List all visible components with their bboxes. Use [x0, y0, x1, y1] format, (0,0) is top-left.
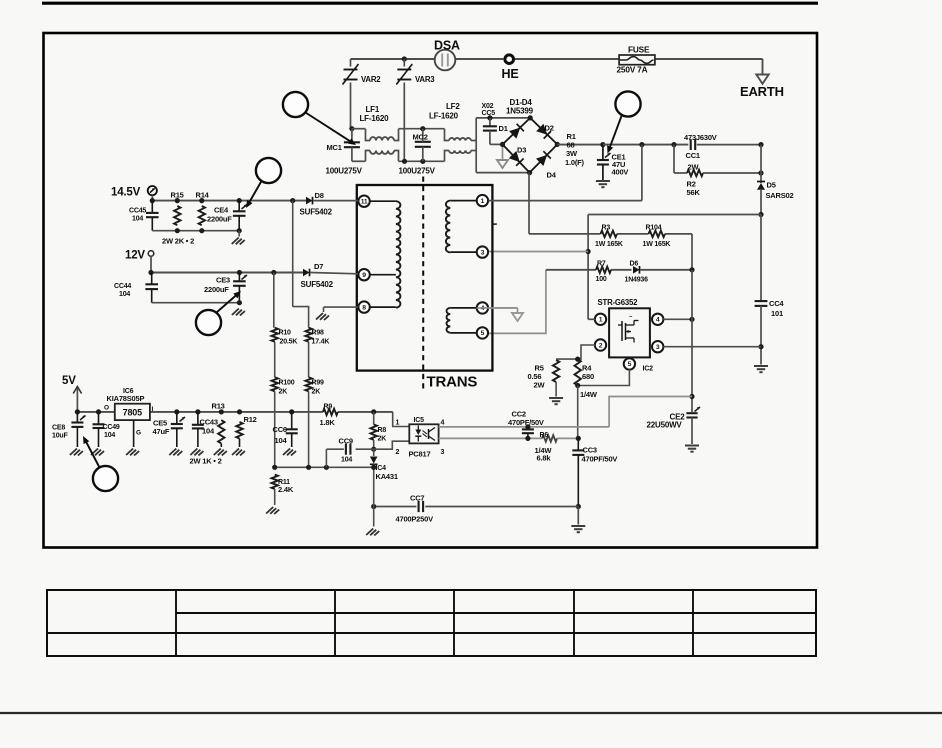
- capacitor CE4 2200uF: [233, 210, 246, 212]
- svg-text:101: 101: [771, 309, 783, 318]
- callout circle 2 to CE4: [256, 158, 281, 183]
- stub tap: [492, 223, 496, 225]
- bridge diamond D1-D4: [503, 118, 531, 144]
- shunt reference IC4 KA431: [373, 449, 375, 456]
- lamp DSA: [435, 50, 456, 71]
- svg-text:X02: X02: [482, 103, 494, 110]
- svg-text:IC2: IC2: [643, 366, 654, 373]
- svg-text:R15: R15: [171, 191, 184, 200]
- wire 5V bus: [77, 411, 114, 413]
- diode D8 SUF5402: [306, 197, 313, 205]
- svg-text:R7: R7: [597, 261, 606, 268]
- svg-text:1W 165K: 1W 165K: [643, 241, 671, 248]
- callout circle 3 to CE3: [196, 310, 221, 335]
- wire IC2 pin3 to CC4 rail: [663, 346, 761, 348]
- page bottom rule: [0, 712, 942, 714]
- capacitor CC2 470PF/50V: [525, 424, 530, 429]
- resistor R2 56K 2W: [673, 145, 675, 173]
- pin 4 transformer: [477, 302, 488, 313]
- svg-text:3W: 3W: [566, 149, 578, 158]
- svg-text:CC6: CC6: [273, 425, 287, 434]
- svg-text:1.0(F): 1.0(F): [565, 158, 585, 167]
- svg-text:104: 104: [119, 291, 130, 298]
- svg-text:100: 100: [596, 276, 607, 283]
- wire AC top line: [351, 58, 436, 60]
- callout circle 1 to MC1: [283, 92, 308, 117]
- resistor R14 2W 2K: [199, 206, 205, 225]
- diode D3: [509, 151, 520, 162]
- node VAR3 bottom: [402, 159, 407, 164]
- capacitor CC4 101: [755, 300, 768, 302]
- svg-text:FUSE: FUSE: [628, 45, 650, 55]
- svg-text:2W 1K • 2: 2W 1K • 2: [190, 457, 222, 466]
- svg-text:R100: R100: [279, 379, 295, 386]
- svg-text:10uF: 10uF: [52, 433, 68, 440]
- wire pin5 return: [488, 270, 546, 334]
- svg-text:CC49: CC49: [103, 424, 120, 431]
- resistor R6 6.8k: [542, 435, 557, 441]
- node MC1 top: [349, 126, 354, 131]
- secondary winding bottom: [450, 307, 476, 309]
- svg-text:O: O: [104, 405, 109, 412]
- secondary winding top: [450, 200, 476, 202]
- wire IC2 pin1 feed: [587, 215, 589, 320]
- svg-text:D3: D3: [517, 146, 526, 155]
- svg-text:VAR2: VAR2: [361, 75, 381, 84]
- capacitor CC1 473J630V: [690, 139, 692, 150]
- node pin3 wire junction: [586, 249, 591, 254]
- wire earth drop: [762, 59, 764, 74]
- svg-text:1N4936: 1N4936: [625, 277, 649, 284]
- capacitor CC44 104: [151, 273, 153, 284]
- svg-text:G: G: [136, 430, 141, 437]
- resistor R10 20.5K: [272, 328, 278, 342]
- regulator IC6 KIA78S05P 7805: [115, 404, 150, 420]
- svg-text:DSA: DSA: [434, 39, 460, 53]
- svg-text:–: –: [629, 314, 633, 320]
- svg-text:14.5V: 14.5V: [111, 187, 141, 199]
- svg-text:100U275V: 100U275V: [326, 167, 363, 176]
- wire R104 drop: [691, 234, 693, 270]
- svg-text:D1: D1: [499, 124, 508, 133]
- wire pin4 rail down: [691, 270, 693, 412]
- wire LF1 rails: [352, 128, 366, 130]
- wire CE1 to CC1: [603, 144, 688, 146]
- diode D5 SARS02: [760, 173, 762, 183]
- svg-text:PC817: PC817: [409, 450, 431, 459]
- terminal HE: [505, 55, 514, 64]
- svg-text:47uF: 47uF: [153, 427, 170, 436]
- svg-text:CC43: CC43: [200, 418, 218, 427]
- node R7 D6 junction: [689, 267, 694, 272]
- capacitor CE3 2200uF: [233, 280, 246, 282]
- resistor R13 1K: [218, 420, 224, 443]
- svg-text:2: 2: [396, 449, 400, 456]
- resistor R7 100: [546, 269, 596, 271]
- svg-text:104: 104: [341, 457, 352, 464]
- svg-text:D8: D8: [315, 191, 324, 200]
- svg-text:470PF/50V: 470PF/50V: [508, 418, 544, 427]
- pin 5 IC2: [624, 358, 635, 369]
- capacitor MC1: [344, 141, 360, 143]
- wire IC2 pin4 to rail: [663, 318, 692, 320]
- svg-text:2W 2K • 2: 2W 2K • 2: [162, 237, 194, 246]
- svg-text:CC3: CC3: [583, 446, 597, 455]
- pin 1 transformer: [477, 195, 488, 206]
- svg-text:3: 3: [481, 249, 485, 256]
- pin 4 IC2: [652, 314, 663, 325]
- svg-text:2K: 2K: [378, 436, 387, 443]
- wire IC5 pin4 line: [439, 426, 609, 428]
- svg-text:R9: R9: [324, 403, 333, 410]
- svg-text:CC45: CC45: [129, 208, 146, 215]
- svg-text:D2: D2: [545, 124, 554, 133]
- earth symbol: [756, 75, 768, 84]
- choke LF2: [445, 129, 450, 141]
- svg-text:250V 7A: 250V 7A: [617, 65, 648, 75]
- wire feedback top rail: [588, 214, 761, 216]
- wire LF2 output bracket: [475, 118, 477, 173]
- svg-text:STR-G6352: STR-G6352: [598, 298, 639, 307]
- svg-text:KIA78S05P: KIA78S05P: [107, 394, 145, 403]
- svg-text:22U50WV: 22U50WV: [647, 420, 683, 429]
- svg-text:CC9: CC9: [339, 437, 353, 446]
- svg-text:12V: 12V: [125, 250, 145, 262]
- svg-text:2200uF: 2200uF: [207, 215, 232, 224]
- table row line lower: [47, 632, 816, 634]
- LED inside IC5: [415, 430, 421, 436]
- svg-text:7805: 7805: [123, 407, 142, 417]
- wire pin4 to ground: [476, 307, 517, 309]
- wire R99 down crossing bus: [308, 391, 310, 467]
- svg-text:1: 1: [481, 198, 485, 205]
- wire IC2 pin2 to R4: [578, 345, 596, 359]
- svg-text:2: 2: [599, 342, 603, 349]
- svg-text:R99: R99: [312, 379, 325, 386]
- wire right rail top: [758, 142, 763, 147]
- wire IC2 pin5 down: [578, 369, 630, 385]
- capacitor MC2: [420, 126, 425, 131]
- svg-text:R13: R13: [212, 402, 225, 411]
- wire R10 to R100: [274, 342, 276, 378]
- pin 9 transformer: [358, 269, 369, 280]
- svg-text:SARS02: SARS02: [766, 191, 794, 200]
- choke LF1: [370, 137, 394, 140]
- svg-text:2K: 2K: [312, 388, 321, 395]
- svg-text:4700P250V: 4700P250V: [396, 515, 434, 524]
- svg-text:R10: R10: [279, 330, 292, 337]
- svg-text:CC4: CC4: [769, 299, 784, 308]
- svg-text:HE: HE: [502, 67, 519, 81]
- diode D4: [536, 155, 547, 166]
- svg-text:CC7: CC7: [410, 494, 424, 503]
- svg-text:1: 1: [599, 317, 603, 324]
- svg-text:2K: 2K: [279, 388, 288, 395]
- resistor R9 1.8K: [323, 409, 338, 415]
- svg-text:IC5: IC5: [414, 417, 425, 424]
- resistor R3 1W 165K: [529, 233, 601, 235]
- resistor R11 2.4K: [272, 475, 278, 489]
- pin 1 IC2: [595, 314, 606, 325]
- svg-text:1.8K: 1.8K: [320, 418, 336, 427]
- wire 14.5V bottom rail: [152, 230, 239, 232]
- pin 3 transformer: [477, 246, 488, 257]
- table row line upper: [176, 612, 816, 614]
- wire AC to bridge bottom: [476, 172, 529, 174]
- svg-text:4: 4: [441, 420, 445, 427]
- svg-text:104: 104: [104, 432, 115, 439]
- svg-text:R104: R104: [646, 225, 662, 232]
- svg-text:LF-1620: LF-1620: [429, 112, 459, 121]
- capacitor CC45 104: [151, 201, 153, 213]
- callout circle 5 to CE1: [615, 91, 640, 116]
- svg-text:6.8k: 6.8k: [537, 454, 552, 463]
- wire AC to bridge top: [476, 117, 530, 119]
- svg-text:CC5: CC5: [482, 110, 496, 117]
- wire feedback node: [275, 466, 374, 468]
- svg-text:20.5K: 20.5K: [280, 339, 298, 346]
- wire DC+ rail / resistor R1 68: [557, 144, 603, 146]
- capacitor CE1 47U 400V: [600, 142, 605, 147]
- svg-text:400V: 400V: [612, 168, 629, 177]
- svg-text:473J630V: 473J630V: [684, 133, 717, 142]
- wire drop to trans pin1 line: [641, 145, 643, 201]
- resistor R98 17.4K: [305, 328, 311, 342]
- svg-text:4: 4: [656, 317, 660, 324]
- wire CC44 bottom: [152, 302, 240, 304]
- resistor R99 2K: [305, 377, 311, 391]
- fuse FUSE 250V 7A: [619, 55, 655, 65]
- svg-text:R3: R3: [602, 225, 611, 232]
- wire IC4 ground: [373, 507, 375, 527]
- svg-text:D5: D5: [767, 181, 776, 190]
- capacitor CC43 104: [197, 412, 199, 424]
- svg-text:R98: R98: [312, 330, 325, 337]
- wire IC5 pin3 line: [439, 437, 542, 439]
- wire R8 to IC5 pin2: [374, 441, 410, 449]
- svg-text:11: 11: [361, 199, 368, 206]
- optocoupler IC5 PC817 box: [409, 424, 438, 443]
- wire R100 down crossing bus: [274, 391, 276, 467]
- resistor R8 2K: [371, 424, 377, 440]
- svg-text:56K: 56K: [687, 188, 701, 197]
- wire 14.5V branch down: [292, 201, 294, 307]
- transformer TRANS box: [357, 185, 493, 371]
- wire R4 down to CC3 node: [577, 386, 579, 439]
- svg-text:CE4: CE4: [214, 206, 229, 215]
- resistor R100 2K: [272, 377, 278, 391]
- node D5 bottom: [758, 212, 763, 217]
- capacitor CC6 104: [291, 412, 293, 429]
- resistor R15 2W 2K: [174, 206, 180, 225]
- svg-text:5V: 5V: [62, 375, 76, 387]
- varistor VAR2: [350, 59, 352, 67]
- ground bridge AC left: [502, 144, 504, 159]
- wire CC3 ground: [576, 504, 581, 509]
- capacitor CC5 X02: [487, 115, 492, 120]
- wire mid rails: [399, 128, 445, 130]
- svg-text:9: 9: [362, 272, 366, 279]
- svg-text:3: 3: [656, 344, 660, 351]
- page top rule: [42, 2, 818, 5]
- svg-text:TRANS: TRANS: [427, 374, 478, 391]
- pin 8 transformer: [358, 301, 369, 312]
- capacitor CC49 104: [98, 412, 100, 424]
- diode D6 1N4936: [633, 266, 640, 274]
- wire R98 to R99: [308, 342, 310, 378]
- svg-text:LF-1620: LF-1620: [360, 114, 390, 123]
- wire trans pin3 to node: [488, 251, 588, 253]
- table column lines: [175, 590, 177, 656]
- svg-text:3: 3: [441, 449, 445, 456]
- table outer border: [47, 590, 816, 656]
- svg-text:LF2: LF2: [446, 102, 460, 111]
- svg-text:MC2: MC2: [413, 133, 428, 142]
- mosfet inside IC2: [621, 321, 623, 341]
- svg-text:R4: R4: [582, 363, 592, 372]
- svg-text:104: 104: [132, 216, 143, 223]
- capacitor CE5 47uF: [176, 412, 178, 424]
- svg-text:SUF5402: SUF5402: [300, 208, 333, 217]
- phototransistor inside IC5: [428, 429, 430, 439]
- wire pin8 to ground: [324, 306, 359, 308]
- resistor R5 0.56 2W: [556, 358, 578, 360]
- svg-text:100U275V: 100U275V: [399, 167, 436, 176]
- svg-text:IC4: IC4: [376, 465, 387, 472]
- primary winding: [370, 200, 396, 202]
- resistor R104 1W 165K: [617, 233, 649, 235]
- svg-text:VAR3: VAR3: [415, 75, 435, 84]
- svg-text:KA431: KA431: [376, 472, 398, 481]
- svg-text:470PF/50V: 470PF/50V: [582, 455, 618, 464]
- resistor R12 1K: [236, 422, 242, 439]
- svg-text:R12: R12: [244, 415, 257, 424]
- svg-text:CC44: CC44: [114, 283, 131, 290]
- svg-text:2W: 2W: [534, 380, 546, 389]
- svg-text:17.4K: 17.4K: [312, 339, 330, 346]
- svg-text:5: 5: [628, 361, 632, 368]
- transformer core dashed line: [422, 177, 424, 392]
- svg-text:2W: 2W: [688, 163, 700, 172]
- svg-text:2200uF: 2200uF: [204, 285, 229, 294]
- svg-text:LF1: LF1: [366, 105, 380, 114]
- capacitor CC7 4700P250V: [374, 506, 417, 508]
- pin 11 transformer: [358, 196, 369, 207]
- capacitor CE2 22U50WV: [686, 412, 697, 414]
- varistor VAR3: [403, 59, 405, 67]
- capacitor CC3 470PF/50V: [576, 436, 581, 441]
- wire 12V branch down: [273, 273, 275, 328]
- svg-text:CC1: CC1: [686, 151, 700, 160]
- svg-text:4: 4: [481, 305, 485, 312]
- diode D7 SUF5402: [303, 269, 310, 277]
- svg-text:1/4W: 1/4W: [580, 390, 598, 399]
- svg-text:680: 680: [582, 372, 594, 381]
- svg-text:104: 104: [275, 436, 288, 445]
- svg-text:CE3: CE3: [216, 276, 230, 285]
- svg-text:MC1: MC1: [327, 143, 342, 152]
- svg-text:1W 165K: 1W 165K: [595, 241, 623, 248]
- pin 5 transformer: [477, 327, 488, 338]
- svg-text:EARTH: EARTH: [740, 84, 784, 99]
- diode D2: [536, 124, 547, 135]
- svg-text:R14: R14: [196, 191, 210, 200]
- callout circle 4 to CE8: [93, 466, 118, 491]
- pin 3 IC2: [652, 341, 663, 352]
- wire pin1 to DC node: [488, 200, 642, 202]
- svg-text:R8: R8: [378, 427, 387, 434]
- resistor R4 680: [575, 359, 581, 385]
- wire right rail to CC4: [760, 215, 762, 301]
- svg-text:8: 8: [362, 304, 366, 311]
- svg-text:R6: R6: [540, 432, 549, 439]
- svg-text:D4: D4: [547, 171, 557, 180]
- schematic frame: [44, 33, 818, 548]
- svg-text:D6: D6: [630, 261, 639, 268]
- wire 12V bus: [151, 272, 303, 274]
- wire bridge bottom drop: [528, 173, 530, 234]
- svg-text:2.4K: 2.4K: [278, 485, 294, 494]
- svg-text:SUF5402: SUF5402: [301, 280, 334, 289]
- svg-text:D7: D7: [314, 262, 323, 271]
- pin 2 IC2: [595, 339, 606, 350]
- svg-text:104: 104: [202, 427, 215, 436]
- svg-text:1: 1: [396, 420, 400, 427]
- diode D1: [509, 128, 520, 139]
- svg-text:1N5399: 1N5399: [506, 107, 534, 116]
- svg-text:5: 5: [481, 330, 485, 337]
- svg-text:CE8: CE8: [52, 425, 65, 432]
- capacitor CC9 104: [356, 448, 374, 450]
- capacitor CE8 10uF: [76, 412, 78, 422]
- wire 14.5V bus: [152, 200, 306, 202]
- wire bus to IC5 pin1: [393, 412, 410, 427]
- node junction VAR3 top: [402, 56, 407, 61]
